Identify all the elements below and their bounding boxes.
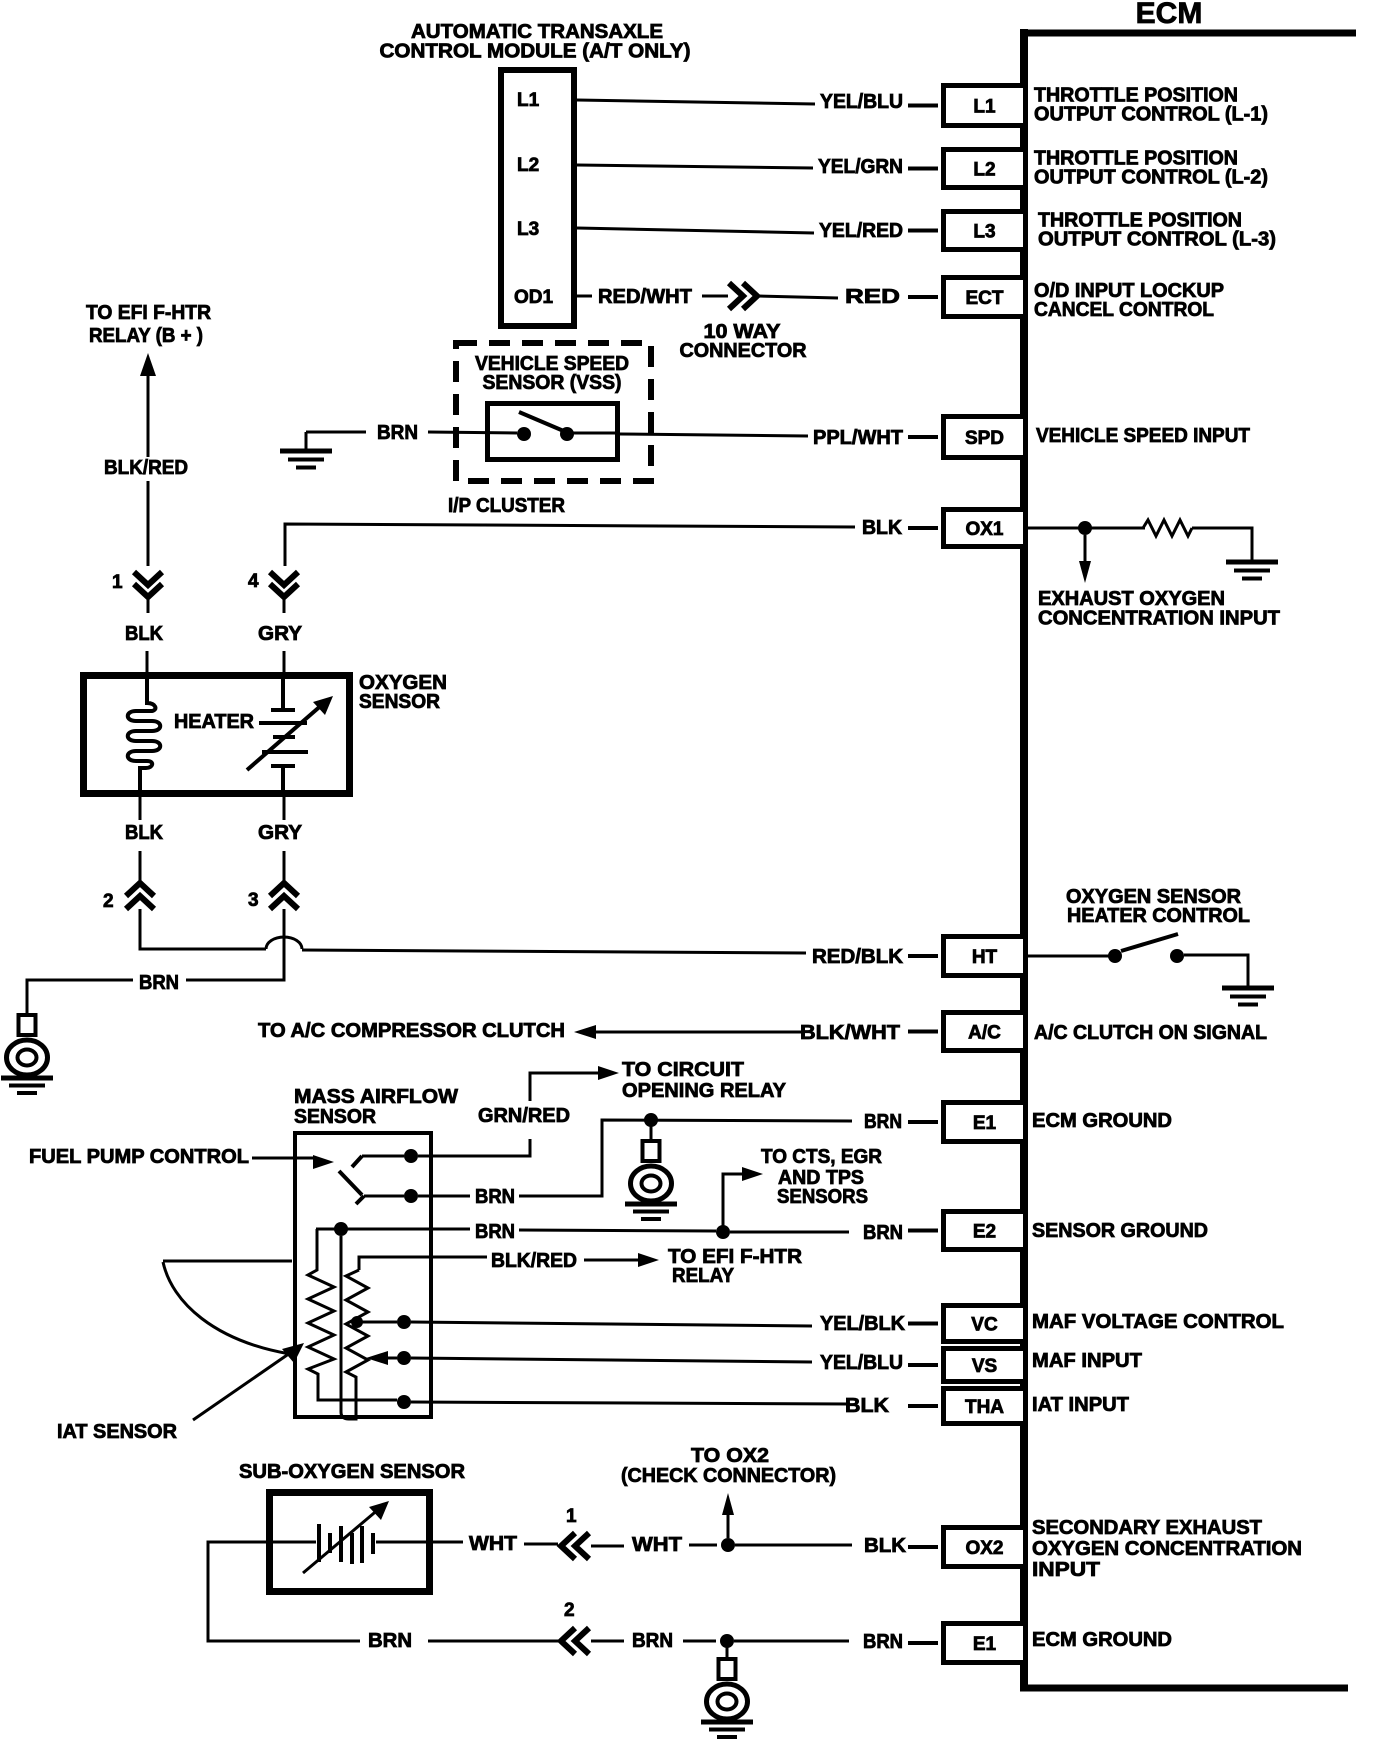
svg-text:BLK: BLK xyxy=(845,1395,890,1417)
wire stub into pin A/C xyxy=(908,1030,938,1034)
pin THA function text xyxy=(1032,1394,1129,1416)
wire label BLK/RED (MAF) xyxy=(491,1250,577,1272)
svg-text:1: 1 xyxy=(112,572,123,593)
IAT leader arrowhead xyxy=(282,1343,304,1363)
svg-text:OXYGEN CONCENTRATION: OXYGEN CONCENTRATION xyxy=(1032,1538,1302,1560)
sensor cell feed bottom xyxy=(281,766,285,797)
wire BRN to E2 junction xyxy=(519,1230,716,1231)
wire BRN to ground junction xyxy=(683,1640,716,1643)
wire BLK/RED vertical lower xyxy=(147,481,150,566)
sub-O2 cell bar 2 (short) xyxy=(328,1533,332,1553)
svg-text:E1: E1 xyxy=(973,1113,997,1134)
ground symbol (VSS) xyxy=(280,451,332,468)
pin E1b function text xyxy=(1032,1629,1172,1651)
ECM pin box E1b xyxy=(944,1624,1026,1663)
pin VC function text xyxy=(1032,1311,1284,1333)
wire BRN to ground xyxy=(306,431,366,434)
svg-text:TO CTS, EGR: TO CTS, EGR xyxy=(761,1146,883,1168)
svg-text:BRN: BRN xyxy=(863,1631,903,1653)
ECM pin box OX2 xyxy=(944,1528,1026,1567)
svg-text:I/P CLUSTER: I/P CLUSTER xyxy=(448,495,566,517)
ECM pin box L3 xyxy=(944,212,1026,250)
wire label BRN (sub mid) xyxy=(632,1630,673,1652)
TO CTS EGR AND TPS SENSORS caption xyxy=(761,1146,883,1208)
arrowhead to circuit opening relay xyxy=(598,1066,619,1080)
connector chevron 2 (up) xyxy=(126,883,154,909)
module pin label L2 xyxy=(517,155,539,176)
wire label RED (ECT) xyxy=(845,286,900,308)
svg-text:E2: E2 xyxy=(973,1222,996,1243)
wire BLK to OX1 pin xyxy=(285,524,855,566)
svg-text:IAT SENSOR: IAT SENSOR xyxy=(57,1421,178,1443)
svg-text:OD1: OD1 xyxy=(514,287,554,308)
svg-text:BRN: BRN xyxy=(863,1222,903,1244)
sensor cell bar 5 (short) xyxy=(271,764,295,768)
VS wiper arrowhead xyxy=(366,1351,388,1365)
wire VS wiper xyxy=(384,1357,397,1360)
vehicle speed sensor dashed box xyxy=(456,343,651,481)
ECM pin box A/C xyxy=(944,1013,1026,1051)
svg-text:GRY: GRY xyxy=(258,623,303,645)
wire inside VSS to right contact xyxy=(567,432,620,435)
svg-text:BRN: BRN xyxy=(864,1111,902,1133)
arrowhead fuel pump control xyxy=(313,1155,334,1169)
IAT leader horizontal xyxy=(163,1260,292,1263)
svg-text:2: 2 xyxy=(564,1600,575,1621)
connector chevron 2 (left) xyxy=(561,1628,589,1654)
sub-O2 cell bar 6 (short) xyxy=(371,1533,375,1554)
svg-text:BLK/RED: BLK/RED xyxy=(104,457,188,479)
oxygen sensor heater control text xyxy=(1066,886,1250,927)
arrow down exhaust oxygen input xyxy=(1079,535,1091,583)
svg-text:SUB-OXYGEN SENSOR: SUB-OXYGEN SENSOR xyxy=(239,1461,466,1483)
svg-text:OX1: OX1 xyxy=(965,519,1003,540)
svg-text:HEATER CONTROL: HEATER CONTROL xyxy=(1067,905,1250,927)
wire label RED/WHT (OD1) xyxy=(598,286,692,308)
junction dot E1 ground xyxy=(644,1113,658,1127)
sensor cell feed top xyxy=(281,675,285,710)
SUB-OXYGEN SENSOR caption xyxy=(239,1461,466,1483)
wire label GRN/RED xyxy=(478,1105,570,1127)
svg-text:BRN: BRN xyxy=(632,1630,673,1652)
wire below chevron 4 xyxy=(283,597,286,613)
ECM pin box HT xyxy=(944,937,1026,976)
wire chevron 3 down to BRN xyxy=(186,909,284,980)
MAF element resistor xyxy=(346,1270,368,1382)
svg-text:RED: RED xyxy=(845,286,900,308)
FUEL PUMP CONTROL caption xyxy=(29,1146,249,1168)
ring terminal stem (E1) xyxy=(650,1126,653,1142)
wire WHT from box xyxy=(433,1541,463,1544)
wire label BLK (THA) xyxy=(845,1395,890,1417)
sub-O2 cell bar 3 (tall) xyxy=(339,1526,343,1562)
connector chevron 1 (down) xyxy=(134,572,162,597)
wire A/C clutch to pin xyxy=(594,1031,803,1034)
wire chevron to WHT 2 xyxy=(591,1545,624,1548)
svg-text:OUTPUT CONTROL (L-1): OUTPUT CONTROL (L-1) xyxy=(1034,104,1268,126)
junction dot OX2 check connector xyxy=(721,1538,735,1552)
wire label RED/BLK (HT) xyxy=(812,946,904,968)
svg-text:BLK: BLK xyxy=(862,517,903,539)
svg-text:HEATER: HEATER xyxy=(174,711,255,733)
MAF switch arm xyxy=(339,1171,362,1195)
sensor cell bar 4 (long) xyxy=(262,750,308,754)
wire label BRN (VSS ground) xyxy=(377,422,418,444)
connector chevron 4 (down) xyxy=(270,572,298,597)
wire label BRN (E1b) xyxy=(863,1631,903,1653)
wire stub into pin L3 xyxy=(908,229,938,233)
wire BRN to E1 run xyxy=(519,1120,852,1196)
VSS reed switch left contact xyxy=(517,427,531,441)
wire L3 to ECM (YEL/RED) xyxy=(577,228,814,233)
wire stub into pin VC xyxy=(908,1322,938,1326)
wire label BRN (E2 row) xyxy=(475,1221,515,1243)
ECM left boundary line xyxy=(1020,29,1028,1691)
wire label YEL/BLK (VC) xyxy=(820,1313,906,1335)
ECM top boundary line xyxy=(1020,30,1356,37)
ground symbol (OX1) xyxy=(1226,562,1278,579)
wire BRN to chevron 2 xyxy=(428,1640,558,1643)
sensor cell bar 2 (long) xyxy=(259,721,307,725)
ECM pin box E1 xyxy=(944,1103,1026,1142)
wire chevron 2 to HT run xyxy=(140,909,266,949)
wire label YEL/BLU (VS) xyxy=(820,1352,903,1374)
wire connector to RED label xyxy=(758,296,838,298)
wire GRY below box xyxy=(283,797,286,820)
wire BLK into oxygen sensor box xyxy=(146,651,149,675)
wire VC tap xyxy=(357,1321,397,1324)
wire stub into pin SPD xyxy=(908,435,938,439)
wire label WHT (left) xyxy=(469,1533,517,1555)
wire BRN to ring terminal xyxy=(27,980,133,1015)
svg-text:VC: VC xyxy=(971,1315,998,1336)
ECM pin box L1 xyxy=(944,86,1026,126)
sub-O2 cell bar 1 (tall) xyxy=(317,1524,321,1562)
svg-text:YEL/GRN: YEL/GRN xyxy=(818,156,903,178)
pin E1 function text xyxy=(1032,1110,1172,1132)
sub-O2 cell bar 5 (tall) xyxy=(360,1526,364,1563)
resistor (OX1 pull) xyxy=(1143,520,1192,536)
10-way connector chevron (right) xyxy=(729,283,757,309)
sub-O2 cell bar 4 (short) xyxy=(350,1533,354,1564)
ECM pin box OX1 xyxy=(944,510,1026,547)
chevron pin number 2 xyxy=(103,891,114,912)
ECM pin box SPD xyxy=(944,417,1026,458)
wire WHT to chevron xyxy=(524,1543,558,1546)
ECM pin box E2 xyxy=(944,1212,1026,1250)
VSS inner box xyxy=(488,404,618,460)
svg-text:ECM GROUND: ECM GROUND xyxy=(1032,1629,1172,1651)
svg-text:VS: VS xyxy=(972,1356,997,1377)
svg-text:E1: E1 xyxy=(973,1634,997,1655)
svg-text:SENSORS: SENSORS xyxy=(777,1186,868,1208)
ECM pin box THA xyxy=(944,1389,1026,1424)
svg-text:A/C CLUTCH ON SIGNAL: A/C CLUTCH ON SIGNAL xyxy=(1034,1022,1267,1044)
svg-text:INPUT: INPUT xyxy=(1032,1559,1100,1581)
svg-text:RED/BLK: RED/BLK xyxy=(812,946,904,968)
wire fuel pump control xyxy=(252,1157,316,1160)
pin L1 function text xyxy=(1034,85,1268,126)
svg-text:SPD: SPD xyxy=(965,428,1004,449)
wire E2 node in MAF box xyxy=(316,1228,470,1231)
IAT SENSOR caption xyxy=(57,1421,178,1443)
ECM pin box VC xyxy=(944,1306,1026,1342)
oxygen sensor box xyxy=(84,676,350,794)
IAT leader line straight xyxy=(193,1353,290,1420)
wire chevron to BRN 2 xyxy=(591,1640,624,1643)
svg-text:MAF VOLTAGE CONTROL: MAF VOLTAGE CONTROL xyxy=(1032,1311,1284,1333)
svg-text:GRY: GRY xyxy=(258,822,303,844)
svg-text:BRN: BRN xyxy=(475,1186,515,1208)
pin ECT function text xyxy=(1034,280,1224,321)
svg-text:TO A/C COMPRESSOR CLUTCH: TO A/C COMPRESSOR CLUTCH xyxy=(258,1020,565,1042)
TO A/C COMPRESSOR CLUTCH caption xyxy=(258,1020,565,1042)
wire label BRN (E2) xyxy=(863,1222,903,1244)
svg-text:YEL/BLK: YEL/BLK xyxy=(820,1313,906,1335)
svg-text:BRN: BRN xyxy=(475,1221,515,1243)
TO EFI F-HTR RELAY caption xyxy=(668,1246,803,1287)
MAF switch bottom contact xyxy=(356,1189,418,1204)
VC tap dot on element xyxy=(351,1316,363,1328)
ring terminal ground (E1b) xyxy=(701,1659,753,1737)
wire GRN/RED upper xyxy=(530,1073,601,1101)
VSS reed switch arm xyxy=(519,412,566,432)
wire GRN/RED from switch xyxy=(418,1139,530,1156)
svg-text:YEL/BLU: YEL/BLU xyxy=(820,1352,903,1374)
svg-text:2: 2 xyxy=(103,891,114,912)
wire label BRN (sensor ground) xyxy=(139,972,179,994)
svg-text:GRN/RED: GRN/RED xyxy=(478,1105,570,1127)
connector chevron 1 (left) xyxy=(561,1533,589,1559)
VSS reed switch right contact xyxy=(560,427,574,441)
svg-text:HT: HT xyxy=(972,947,998,968)
chevron pin number 4 xyxy=(248,571,259,592)
svg-text:RELAY (B + ): RELAY (B + ) xyxy=(89,325,203,347)
svg-text:YEL/RED: YEL/RED xyxy=(819,220,903,242)
svg-text:VEHICLE SPEED INPUT: VEHICLE SPEED INPUT xyxy=(1036,425,1250,447)
wire stub into pin OX2 xyxy=(908,1545,938,1549)
svg-text:BLK/WHT: BLK/WHT xyxy=(800,1022,900,1044)
junction dot CTS branch xyxy=(716,1225,730,1239)
svg-text:4: 4 xyxy=(248,571,259,592)
svg-text:TO EFI F-HTR: TO EFI F-HTR xyxy=(86,302,212,324)
TO CIRCUIT OPENING RELAY caption xyxy=(622,1059,787,1102)
junction dot E2 node xyxy=(334,1222,348,1236)
wire stub into pin E2 xyxy=(908,1229,938,1233)
wire stub into pin E1 xyxy=(908,1120,938,1124)
wire label BRN (sub left) xyxy=(368,1630,412,1652)
TO OX2 CHECK CONNECTOR caption xyxy=(621,1445,836,1487)
svg-text:MASS AIRFLOW: MASS AIRFLOW xyxy=(294,1086,458,1108)
arrowhead to A/C compressor clutch xyxy=(574,1025,596,1039)
wire up to CTS sensors xyxy=(723,1174,745,1230)
arrow up to OX2 check connector xyxy=(722,1493,734,1538)
wire stub into pin OX1 xyxy=(908,526,938,530)
junction dot E1b ground xyxy=(720,1634,734,1648)
pin L3 function text xyxy=(1038,210,1276,251)
wire BRN return from sub-O2 xyxy=(208,1542,360,1641)
ring terminal ground (E1) xyxy=(625,1141,677,1219)
ground stub (VSS) xyxy=(305,432,308,450)
arrowhead to CTS EGR TPS xyxy=(742,1167,763,1181)
wire stub into pin L2 xyxy=(908,167,938,171)
wire label YEL/BLU (L1) xyxy=(820,91,903,113)
heater element coil xyxy=(128,676,161,797)
HT switch arm xyxy=(1121,934,1178,951)
junction dot THA exit xyxy=(397,1395,411,1409)
OXYGEN SENSOR caption xyxy=(359,672,447,713)
ECM pin box L2 xyxy=(944,150,1026,188)
sensor cell bar 3 (short) xyxy=(273,735,295,739)
svg-text:L3: L3 xyxy=(517,219,539,240)
svg-text:CONCENTRATION INPUT: CONCENTRATION INPUT xyxy=(1038,608,1280,630)
VSS caption xyxy=(475,353,629,394)
wire HT to switch xyxy=(1028,955,1110,958)
sub-oxygen sensor box xyxy=(270,1493,430,1592)
svg-text:OX2: OX2 xyxy=(965,1538,1003,1559)
svg-text:BLK: BLK xyxy=(864,1535,907,1557)
wire switch to ground xyxy=(1184,955,1248,986)
wire VC to pin xyxy=(411,1322,812,1326)
svg-text:MAF INPUT: MAF INPUT xyxy=(1032,1350,1142,1372)
wire stub into pin E1b xyxy=(908,1641,938,1645)
svg-text:WHT: WHT xyxy=(632,1534,682,1556)
sub-O2 wire right segment xyxy=(376,1541,430,1544)
svg-text:L1: L1 xyxy=(517,90,540,111)
wire stub into pin VS xyxy=(908,1363,938,1367)
wire label BLK (OX2) xyxy=(864,1535,907,1557)
svg-text:IAT INPUT: IAT INPUT xyxy=(1032,1394,1129,1416)
wire to chevron 2 xyxy=(139,851,142,884)
svg-text:SENSOR (VSS): SENSOR (VSS) xyxy=(483,372,622,394)
svg-text:L2: L2 xyxy=(517,155,539,176)
MAF element plate xyxy=(341,1236,356,1419)
module pin label OD1 xyxy=(514,287,554,308)
wire label GRY (sensor feed) xyxy=(258,623,303,645)
svg-text:SENSOR GROUND: SENSOR GROUND xyxy=(1032,1220,1208,1242)
IAT leader curve xyxy=(163,1262,290,1354)
wire to HT pin (RED/BLK) xyxy=(302,950,806,953)
svg-text:OUTPUT CONTROL (L-3): OUTPUT CONTROL (L-3) xyxy=(1038,229,1276,251)
pin SPD function text xyxy=(1036,425,1250,447)
arrowhead up to EFI F-HTR relay xyxy=(140,353,156,376)
ring terminal stem (E1b) xyxy=(726,1647,729,1660)
svg-text:BLK: BLK xyxy=(125,822,164,844)
svg-text:TO OX2: TO OX2 xyxy=(691,1445,769,1467)
svg-text:ECM: ECM xyxy=(1136,0,1203,30)
sensor cell bar 1 (short) xyxy=(271,708,295,712)
svg-text:RELAY: RELAY xyxy=(672,1265,735,1287)
svg-text:RED/WHT: RED/WHT xyxy=(598,286,692,308)
ECM pin box ECT xyxy=(944,278,1026,317)
svg-text:CANCEL CONTROL: CANCEL CONTROL xyxy=(1034,299,1214,321)
chevron pin number 1 xyxy=(112,572,123,593)
wire below chevron 1 xyxy=(147,597,150,613)
wire label PPL/WHT (SPD) xyxy=(813,427,903,449)
wire label GRY (sensor return) xyxy=(258,822,303,844)
chevron pin number 3 xyxy=(248,890,259,911)
sub-O2 variable arrow xyxy=(303,1501,389,1573)
svg-text:(CHECK CONNECTOR): (CHECK CONNECTOR) xyxy=(621,1465,836,1487)
wire label BRN (switch ground) xyxy=(475,1186,515,1208)
wire BLK/RED from MAF element xyxy=(359,1257,487,1270)
wire VSS to SPD pin xyxy=(620,434,808,436)
wire GRY into oxygen sensor box xyxy=(283,651,286,675)
wire OX1 to resistor xyxy=(1028,527,1145,530)
pin E2 function text xyxy=(1032,1220,1208,1242)
svg-text:ECM GROUND: ECM GROUND xyxy=(1032,1110,1172,1132)
wire label BLK (heater return) xyxy=(125,822,164,844)
wire to chevron 3 xyxy=(283,851,286,884)
wire OD1 stub xyxy=(577,295,592,298)
wire L1 to ECM (YEL/BLU) xyxy=(577,100,815,104)
pin VS function text xyxy=(1032,1350,1142,1372)
wire label YEL/GRN (L2) xyxy=(818,156,903,178)
MASS AIRFLOW SENSOR caption xyxy=(294,1086,458,1128)
wire label BLK/WHT (A/C) xyxy=(800,1022,900,1044)
svg-text:SECONDARY EXHAUST: SECONDARY EXHAUST xyxy=(1032,1517,1262,1539)
ground symbol (HT) xyxy=(1222,988,1274,1005)
svg-text:BLK: BLK xyxy=(125,623,164,645)
svg-text:ECT: ECT xyxy=(966,288,1004,309)
junction dot VS exit xyxy=(397,1351,411,1365)
10 WAY CONNECTOR caption xyxy=(680,321,808,362)
wire THA to pin xyxy=(411,1402,850,1404)
module pin label L3 xyxy=(517,219,539,240)
wire BLK below box xyxy=(139,797,142,820)
sensor variable arrow xyxy=(247,696,333,770)
svg-text:A/C: A/C xyxy=(968,1023,1001,1044)
HT switch left contact xyxy=(1108,949,1122,963)
automatic transaxle control module title xyxy=(380,21,691,63)
ECM bottom boundary line xyxy=(1020,1685,1348,1692)
wire WHT to OX2 junction xyxy=(689,1544,717,1547)
svg-text:3: 3 xyxy=(248,890,259,911)
wire E2 junction to pin xyxy=(730,1231,849,1234)
TO EFI F-HTR RELAY (B+) caption xyxy=(86,302,212,347)
IAT resistor branch xyxy=(308,1229,397,1400)
svg-text:THA: THA xyxy=(965,1397,1004,1418)
wire label BRN (E1) xyxy=(864,1111,902,1133)
arrowhead to EFI F-HTR relay xyxy=(638,1253,659,1267)
svg-text:L2: L2 xyxy=(973,160,995,181)
ring terminal ground (sensor) xyxy=(1,1015,53,1093)
pin L2 function text xyxy=(1034,148,1268,189)
wire BLK/RED short xyxy=(584,1259,640,1262)
wire label WHT (right) xyxy=(632,1534,682,1556)
svg-text:1: 1 xyxy=(566,1506,577,1527)
svg-text:L3: L3 xyxy=(973,222,995,243)
ECM module label xyxy=(1136,0,1203,30)
svg-text:PPL/WHT: PPL/WHT xyxy=(813,427,903,449)
svg-text:BRN: BRN xyxy=(368,1630,412,1652)
wire stub into pin THA xyxy=(908,1404,938,1408)
svg-text:CONNECTOR: CONNECTOR xyxy=(680,340,808,362)
wire stub into pin HT xyxy=(908,954,938,958)
wire stub into pin L1 xyxy=(908,104,938,108)
module pin label L1 xyxy=(517,90,540,111)
sub-O2 wire left segment xyxy=(270,1541,316,1544)
chevron pin number 1 (sub) xyxy=(566,1506,577,1527)
wire RED/WHT to connector xyxy=(702,295,728,298)
HT switch right contact xyxy=(1170,949,1184,963)
svg-text:YEL/BLU: YEL/BLU xyxy=(820,91,903,113)
svg-text:SENSOR: SENSOR xyxy=(359,691,441,713)
pin A/C function text xyxy=(1034,1022,1267,1044)
wire label BLK (heater feed) xyxy=(125,623,164,645)
wire label BLK/RED xyxy=(104,457,188,479)
connector chevron 3 (up) xyxy=(270,883,298,909)
